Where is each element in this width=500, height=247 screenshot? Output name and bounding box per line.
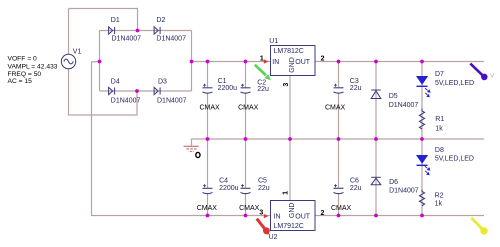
wire bottom rail right of U2 bbox=[315, 215, 484, 217]
wire bridge bottom edge bbox=[100, 90, 192, 92]
svg-text:OUT: OUT bbox=[295, 213, 311, 220]
svg-text:CMAX: CMAX bbox=[238, 105, 259, 112]
junction C6 bottom bbox=[337, 214, 341, 218]
junction C5 bottom bbox=[244, 214, 248, 218]
yellow voltage probe at bottom rail end bbox=[471, 218, 487, 235]
wire C5 column bbox=[245, 139, 247, 216]
svg-text:D8: D8 bbox=[435, 147, 444, 154]
svg-text:D6: D6 bbox=[389, 179, 398, 186]
svg-text:D1N4007: D1N4007 bbox=[156, 36, 186, 43]
junction D7 top bbox=[420, 60, 424, 64]
wire top rail right of U1 bbox=[315, 61, 484, 63]
svg-text:C3: C3 bbox=[350, 78, 359, 85]
svg-text:D1N4007: D1N4007 bbox=[112, 36, 142, 43]
junction C3 bottom on ground rail bbox=[337, 137, 341, 141]
voltage source V1 bbox=[61, 54, 75, 68]
svg-text:22u: 22u bbox=[258, 185, 270, 192]
diode D1 bbox=[109, 27, 115, 34]
svg-text:3: 3 bbox=[259, 210, 263, 217]
capacitor C2 bbox=[241, 84, 251, 93]
current marker arrowhead at U1 IN pin bbox=[264, 59, 269, 63]
svg-text:3: 3 bbox=[283, 83, 290, 87]
wire C2 column bbox=[245, 62, 247, 140]
svg-text:IN: IN bbox=[274, 213, 281, 220]
svg-text:5V,LED,LED: 5V,LED,LED bbox=[435, 155, 474, 162]
svg-text:D1N4007: D1N4007 bbox=[389, 188, 419, 195]
svg-text:D5: D5 bbox=[389, 93, 398, 100]
svg-text:D1N4007: D1N4007 bbox=[389, 102, 419, 109]
capacitor C3 bbox=[334, 84, 344, 93]
junction C4 bottom bbox=[206, 214, 210, 218]
junction D6 bottom bbox=[374, 214, 378, 218]
red current probe at U2 bbox=[257, 219, 270, 235]
svg-text:R2: R2 bbox=[435, 193, 444, 200]
wire C1 column bbox=[207, 62, 209, 140]
wire V1 bottom lead to bridge bottom node bbox=[69, 69, 138, 115]
svg-text:5V,LED,LED: 5V,LED,LED bbox=[435, 80, 474, 87]
LED D8 bbox=[416, 155, 428, 166]
svg-text:V1: V1 bbox=[73, 48, 82, 55]
junction C1 top bbox=[206, 60, 210, 64]
svg-text:D1: D1 bbox=[111, 17, 120, 24]
svg-text:CMAX: CMAX bbox=[197, 205, 218, 212]
wire C4 column bbox=[207, 139, 209, 216]
svg-text:1: 1 bbox=[283, 191, 290, 195]
svg-text:U2: U2 bbox=[269, 234, 278, 241]
wire bridge right edge bbox=[191, 31, 193, 92]
svg-text:1k: 1k bbox=[435, 201, 443, 208]
wire top rail from bridge to U1 IN bbox=[192, 61, 271, 63]
svg-text:AC = 15: AC = 15 bbox=[8, 78, 33, 85]
junction C2 bottom on ground rail bbox=[244, 137, 248, 141]
junction D5 top bbox=[374, 60, 378, 64]
svg-text:22u: 22u bbox=[350, 85, 362, 92]
diode D5 bbox=[371, 90, 381, 99]
svg-text:D4: D4 bbox=[111, 79, 120, 86]
diode D3 bbox=[154, 87, 160, 94]
wire ground stub bbox=[192, 139, 208, 146]
junction C3 top bbox=[337, 60, 341, 64]
junction R2 bottom bbox=[420, 214, 424, 218]
svg-text:CMAX: CMAX bbox=[325, 105, 346, 112]
junction R1 bottom on ground rail bbox=[420, 137, 424, 141]
svg-text:2: 2 bbox=[321, 55, 325, 62]
junction C2 top bbox=[244, 60, 248, 64]
svg-text:C1: C1 bbox=[218, 78, 227, 85]
ground 0 symbol bbox=[184, 146, 199, 151]
ground node 0 label bbox=[196, 152, 200, 157]
wire D5 column bbox=[375, 62, 377, 140]
junction at bridge AC top node bbox=[136, 29, 140, 33]
regulator U2 LM7912C bbox=[271, 201, 316, 231]
regulator U1 LM7812C bbox=[271, 46, 316, 76]
svg-text:GND: GND bbox=[289, 203, 296, 219]
svg-text:CMAX: CMAX bbox=[331, 205, 352, 212]
svg-text:C5: C5 bbox=[258, 177, 267, 184]
svg-text:D3: D3 bbox=[158, 79, 167, 86]
svg-text:2200u: 2200u bbox=[219, 185, 239, 192]
diode D4 bbox=[109, 87, 115, 94]
wire bridge left edge bbox=[99, 31, 101, 92]
wire bridge top edge bbox=[100, 30, 192, 32]
capacitor C5 bbox=[241, 184, 251, 193]
svg-text:CMAX: CMAX bbox=[239, 205, 260, 212]
resistor R2 bbox=[419, 190, 424, 206]
svg-text:U1: U1 bbox=[269, 38, 278, 45]
wire C3 column bbox=[338, 62, 340, 140]
svg-text:1: 1 bbox=[260, 55, 264, 62]
svg-text:CMAX: CMAX bbox=[200, 105, 221, 112]
svg-text:LM7812C: LM7812C bbox=[274, 48, 304, 55]
svg-text:C4: C4 bbox=[219, 177, 228, 184]
resistor R1 bbox=[419, 109, 424, 130]
svg-text:D2: D2 bbox=[156, 17, 165, 24]
svg-text:22u: 22u bbox=[257, 86, 269, 93]
junction at bridge positive node bbox=[190, 60, 194, 64]
svg-text:R1: R1 bbox=[435, 116, 444, 123]
svg-text:2200u: 2200u bbox=[218, 85, 238, 92]
svg-text:22u: 22u bbox=[350, 185, 362, 192]
svg-text:1k: 1k bbox=[435, 126, 443, 133]
junction U1 pin3 on ground rail bbox=[288, 137, 292, 141]
svg-text:OUT: OUT bbox=[295, 59, 311, 66]
diode D2 bbox=[154, 27, 160, 34]
svg-text:LM7912C: LM7912C bbox=[274, 223, 304, 230]
wire D6 column bbox=[375, 139, 377, 216]
svg-text:C6: C6 bbox=[350, 177, 359, 184]
junction at bridge negative node bbox=[98, 60, 102, 64]
wire left drop and bottom rail to U2 IN bbox=[92, 62, 271, 216]
junction C1 bottom on ground rail bbox=[206, 137, 210, 141]
svg-text:2: 2 bbox=[321, 210, 325, 217]
svg-text:VAMPL = 42.433: VAMPL = 42.433 bbox=[8, 63, 58, 70]
wire D7-R1 column bbox=[421, 62, 423, 140]
capacitor C4 bbox=[203, 184, 213, 193]
diode D6 bbox=[371, 177, 381, 185]
LED D7 bbox=[416, 76, 428, 87]
svg-text:IN: IN bbox=[272, 59, 279, 66]
junction at bridge AC bottom node bbox=[135, 89, 139, 93]
wire C6 column bbox=[338, 139, 340, 216]
green current probe at U1 bbox=[255, 65, 271, 81]
blue voltage probe V at top rail end bbox=[470, 64, 487, 81]
current marker arrowhead at U2 IN pin bbox=[264, 214, 269, 218]
svg-text:FREQ = 50: FREQ = 50 bbox=[8, 71, 42, 78]
svg-text:D7: D7 bbox=[435, 71, 444, 78]
wire middle ground rail bbox=[208, 138, 485, 140]
capacitor C6 bbox=[334, 184, 344, 193]
svg-text:VOFF = 0: VOFF = 0 bbox=[8, 56, 37, 63]
wire D8-R2 column bbox=[421, 139, 423, 216]
svg-text:D1N4007: D1N4007 bbox=[157, 97, 187, 104]
wire U1 pin3 to ground rail bbox=[289, 76, 291, 140]
wire top-left loop from V1 to bridge top node bbox=[69, 9, 138, 31]
svg-text:V: V bbox=[490, 74, 494, 80]
wire V1 top lead bbox=[68, 9, 70, 55]
capacitor C1 bbox=[203, 84, 213, 93]
wire U2 pin1 to ground rail bbox=[289, 139, 291, 201]
svg-text:D1N4007: D1N4007 bbox=[111, 97, 141, 104]
junction D5 bottom on ground rail bbox=[374, 137, 378, 141]
svg-text:GND: GND bbox=[289, 57, 296, 73]
